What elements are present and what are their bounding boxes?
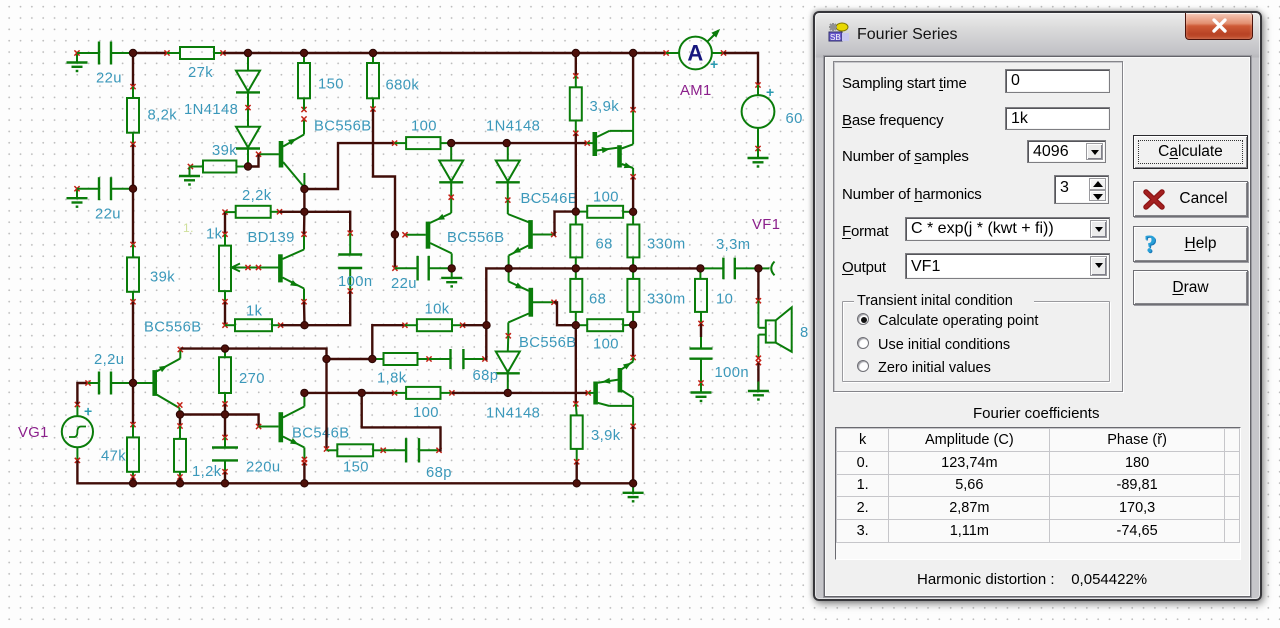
svg-text:100n: 100n — [715, 365, 750, 381]
svg-text:10k: 10k — [425, 302, 450, 318]
svg-text:2,2u: 2,2u — [94, 352, 124, 368]
svg-text:27k: 27k — [188, 65, 213, 81]
svg-text:BC546B: BC546B — [521, 191, 579, 207]
svg-text:100: 100 — [411, 119, 437, 135]
svg-text:68p: 68p — [426, 465, 452, 481]
svg-text:39k: 39k — [150, 270, 175, 286]
svg-text:3,9k: 3,9k — [590, 99, 620, 115]
svg-text:VF1: VF1 — [752, 217, 780, 233]
svg-text:100: 100 — [593, 190, 619, 206]
svg-text:BC546B: BC546B — [292, 426, 350, 442]
svg-text:BC556B: BC556B — [314, 119, 372, 135]
svg-text:47k: 47k — [101, 449, 126, 465]
svg-text:A: A — [687, 41, 703, 66]
svg-text:100: 100 — [593, 337, 619, 353]
svg-text:680k: 680k — [386, 78, 420, 94]
svg-text:270: 270 — [239, 371, 265, 387]
svg-text:3,3m: 3,3m — [716, 237, 751, 253]
svg-text:150: 150 — [343, 460, 369, 476]
svg-text:BC556B: BC556B — [519, 335, 577, 351]
svg-text:1N4148: 1N4148 — [184, 102, 238, 118]
svg-text:1k: 1k — [246, 304, 263, 320]
svg-text:+: + — [766, 84, 775, 100]
svg-text:1,8k: 1,8k — [377, 371, 407, 387]
svg-text:AM1: AM1 — [680, 83, 712, 99]
svg-text:220u: 220u — [246, 460, 281, 476]
svg-text:39k: 39k — [212, 143, 237, 159]
svg-text:330m: 330m — [647, 237, 686, 253]
svg-text:+: + — [710, 56, 719, 72]
svg-text:68p: 68p — [473, 368, 499, 384]
svg-text:60: 60 — [786, 111, 803, 127]
svg-text:1.: 1. — [183, 221, 194, 235]
svg-text:SB: SB — [830, 33, 841, 42]
svg-text:1N4148: 1N4148 — [486, 119, 540, 135]
svg-text:BC556B: BC556B — [447, 230, 505, 246]
svg-text:22u: 22u — [95, 207, 121, 223]
svg-text:8: 8 — [800, 325, 809, 341]
svg-text:100n: 100n — [338, 274, 373, 290]
svg-text:68: 68 — [589, 292, 606, 308]
svg-text:10: 10 — [716, 292, 733, 308]
svg-text:150: 150 — [318, 77, 344, 93]
svg-text:1k: 1k — [206, 227, 223, 243]
svg-text:22u: 22u — [96, 71, 122, 87]
svg-text:22u: 22u — [391, 276, 417, 292]
svg-text:+: + — [84, 403, 93, 419]
svg-text:3,9k: 3,9k — [591, 428, 621, 444]
svg-text:BD139: BD139 — [248, 230, 295, 246]
svg-text:1N4148: 1N4148 — [486, 406, 540, 422]
svg-text:VG1: VG1 — [18, 425, 49, 441]
svg-text:?: ? — [1144, 231, 1157, 258]
svg-text:330m: 330m — [647, 292, 686, 308]
svg-text:BC556B: BC556B — [144, 320, 202, 336]
svg-text:8,2k: 8,2k — [148, 108, 178, 124]
svg-text:68: 68 — [596, 237, 613, 253]
svg-text:2,2k: 2,2k — [242, 188, 272, 204]
svg-text:1,2k: 1,2k — [192, 464, 222, 480]
svg-text:100: 100 — [413, 405, 439, 421]
